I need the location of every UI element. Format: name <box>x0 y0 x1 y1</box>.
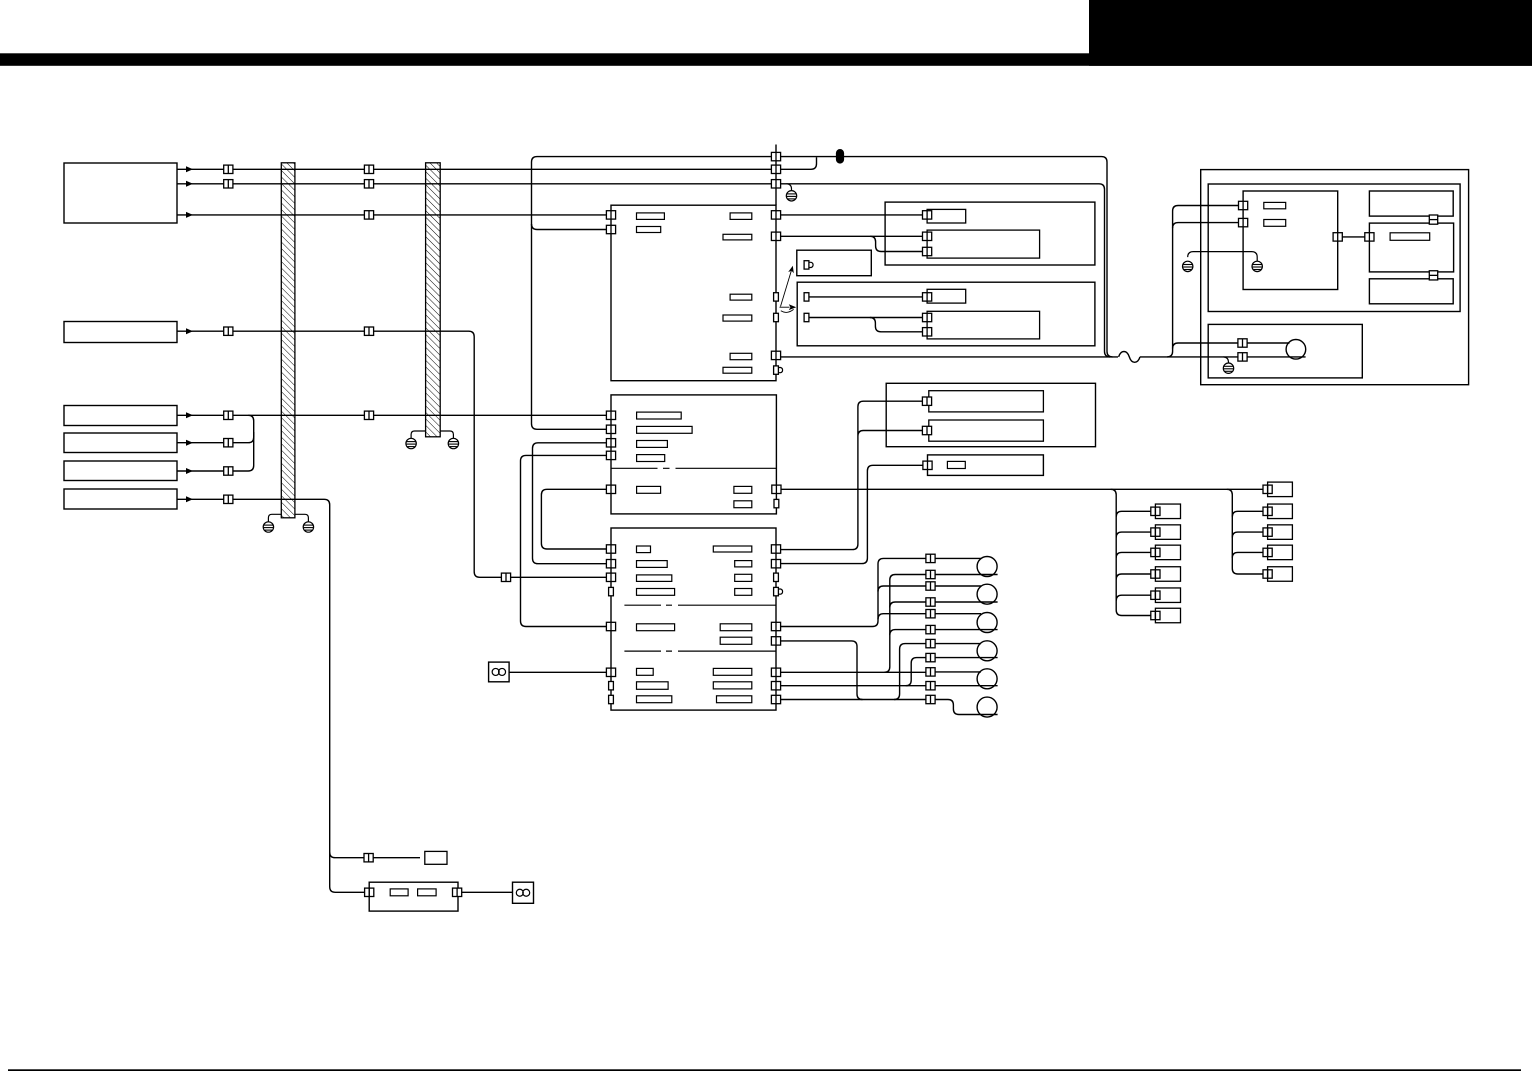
U3 left rect 1 <box>637 546 651 553</box>
wire U1 to K1 element1 <box>781 214 923 216</box>
connector lamp3 top <box>926 610 935 618</box>
U1 left pin rect 1 <box>637 213 665 220</box>
wire right column branch 3 <box>1232 552 1263 558</box>
switch unit box <box>928 455 1044 476</box>
connector lamp4 bottom <box>926 653 935 661</box>
U2 pin rect 5 <box>637 486 661 493</box>
ground stem from line C <box>787 184 792 191</box>
ECU box U1 <box>611 205 776 381</box>
wire lamp5 bottom lead <box>935 685 998 687</box>
wire lamp6 lead <box>935 700 998 715</box>
ground G6 <box>1183 261 1193 271</box>
wire line B (y156.6) with corner down at right <box>537 157 1113 357</box>
lamp L6 <box>977 697 997 717</box>
connector sensor element2 <box>922 426 931 434</box>
ground G4 <box>448 438 458 448</box>
K1 element 1 <box>927 209 966 223</box>
connector lamp2 top <box>926 582 935 590</box>
ground G5 <box>786 191 796 201</box>
arrow on line D <box>186 212 193 218</box>
wire U3 to lamp1 top <box>781 558 926 626</box>
wire lamp2 bottom lead <box>935 601 998 603</box>
connector lamp3 bottom <box>926 625 935 633</box>
wire riser branch y343 <box>1173 343 1238 349</box>
ground G1 <box>263 522 273 532</box>
U3 low rect right 1 <box>713 668 752 675</box>
wire branch lamp3 bottom <box>890 630 926 636</box>
wire long feed y489 <box>781 488 1263 490</box>
wire U2c3 to U3 (x532.5) <box>533 443 607 564</box>
U2 left conn 2 <box>606 425 615 433</box>
U3 left half pin 7 <box>609 682 614 690</box>
right column connector 4 <box>1263 570 1272 578</box>
sensor element 1 <box>929 391 1044 412</box>
wire left column branch 5 <box>1116 595 1151 601</box>
wire U2c4 to U3 (x520.5) <box>521 455 607 626</box>
harness squiggle <box>1119 352 1140 363</box>
connector on line F col1 <box>224 411 233 419</box>
connector lamp4 top <box>926 639 935 647</box>
switch arrow horizontal <box>780 306 790 308</box>
connector stalk pin 3 <box>771 180 780 188</box>
lamp L2 <box>977 584 997 604</box>
connector on line F col2 <box>364 411 373 419</box>
wire left column branch 1 <box>1116 511 1151 517</box>
wire branch lamp3 top <box>878 614 926 620</box>
resistor box <box>425 851 447 864</box>
ground G3 <box>406 438 416 448</box>
title block (black) <box>1089 0 1532 66</box>
wire left column branch 4 <box>1116 574 1151 580</box>
wire riser x1172.6 to combo meter <box>1167 206 1239 357</box>
meter ground link wire <box>1188 252 1258 262</box>
right column connector 3 <box>1263 548 1272 556</box>
U3 right rect 1 <box>713 546 752 552</box>
U2 left conn 3 <box>606 439 615 447</box>
U3 divider dashed 2 <box>624 650 776 652</box>
left column connector 2 <box>1151 528 1160 536</box>
right top terminal connector <box>1263 485 1272 493</box>
wire riser to lamp4 top <box>894 644 926 700</box>
arrow on line G <box>186 440 193 446</box>
connector out of diode box <box>453 888 462 896</box>
wire between sub-boxes <box>1342 236 1365 238</box>
right column terminal box 2 <box>1268 525 1293 540</box>
header bar <box>0 53 1532 66</box>
U3 low rect left 2 <box>637 682 669 690</box>
connector K2 element2 lower <box>923 328 932 336</box>
wire main feed after squiggle <box>1140 356 1238 358</box>
right top terminal box <box>1268 482 1293 497</box>
connector on line C col1 <box>224 180 233 188</box>
K2 pin 1 <box>804 293 809 301</box>
U2 pin rect 3 <box>637 441 668 448</box>
junction fuse2/3 to line F <box>248 415 254 437</box>
U3 right half pin 3 <box>774 573 779 581</box>
sensor box <box>886 383 1095 446</box>
meter sub-box right middle left-edge conn <box>1365 233 1374 241</box>
meter sub-box left rect 2 <box>1264 220 1286 227</box>
arrow on line C <box>186 181 193 187</box>
wire meter lower conn2 under bulb <box>1247 356 1306 358</box>
U3 right conn 6 <box>771 637 780 645</box>
wire left column drop <box>1111 489 1151 615</box>
left column terminal box 5 <box>1155 588 1180 603</box>
connector K2 element1 <box>923 293 932 301</box>
connector on line H col1 <box>224 467 233 475</box>
page reference symbol 2 <box>513 882 534 903</box>
U3 left rect 4 <box>637 589 675 596</box>
K2 pin 2 <box>804 313 809 321</box>
U1 right key pin h <box>774 366 783 374</box>
sensor element 2 <box>929 420 1044 441</box>
connector on line J col1 <box>224 495 233 503</box>
wire lamp3 bottom lead <box>935 629 998 631</box>
connector on line E col1 <box>224 327 233 335</box>
key connector <box>804 261 813 269</box>
footer rule <box>8 1069 1521 1071</box>
U3 right conn 9 <box>771 695 780 703</box>
wire U3 to lamp5 top <box>781 671 926 673</box>
U3 low rect right 3 <box>717 696 752 703</box>
meter sub-box left right-edge conn <box>1333 233 1342 241</box>
U1 left connector pin b <box>606 225 615 233</box>
U2 pin rect 1 <box>637 412 682 419</box>
left column connector 5 <box>1151 591 1160 599</box>
switch arrow flourish <box>781 309 794 312</box>
U1 right pin rect 2 <box>723 234 752 240</box>
connector sensor element1 <box>922 397 931 405</box>
arrow on line J <box>186 496 193 502</box>
U2 divider dashed <box>611 467 776 469</box>
connector on line A col2 <box>364 165 373 173</box>
wire line A merge up into line B <box>811 157 817 169</box>
connector on line G col1 <box>224 439 233 447</box>
left column connector 6 <box>1151 611 1160 619</box>
meter sub-box left conn 2 <box>1239 218 1248 226</box>
left column terminal box 2 <box>1155 525 1180 540</box>
ground G8 <box>1223 363 1233 373</box>
wire lamp4 bottom lead <box>935 657 998 659</box>
wire lamp1 bottom lead <box>935 574 998 576</box>
relay box K1 <box>885 202 1095 265</box>
U3 mid rect right 2 <box>720 637 752 644</box>
U3 low rect right 2 <box>713 682 752 689</box>
U3 right conn 1 <box>771 545 780 553</box>
wire riser branch y222.6 <box>1173 223 1239 229</box>
diode box rect 2 <box>418 889 437 896</box>
U1 right pin rect 5 <box>730 353 752 359</box>
ground G2 <box>303 522 313 532</box>
connector switch unit <box>923 461 932 469</box>
wire riser to lamp1 bottom <box>884 575 926 673</box>
meter sub-box right lower <box>1369 279 1453 304</box>
connector lamp5 bottom <box>926 682 935 690</box>
wire U3 to lamp6 <box>781 699 926 701</box>
left column connector 3 <box>1151 548 1160 556</box>
wire branch x531.5 to ECU pin <box>532 224 607 230</box>
box fuse 2 <box>64 433 177 453</box>
box fuse 4 <box>64 489 177 509</box>
wire branch to K1 element2 lower <box>870 236 922 251</box>
wire U3 conn6 drop to lamp6 line <box>781 641 863 700</box>
ground stem left of bar 2 <box>411 431 426 438</box>
meter lower conn 1 <box>1238 339 1247 347</box>
wire fuse4 line J (y499) <box>177 499 365 892</box>
wire lamp4 top lead <box>935 643 981 645</box>
bulkhead grommet bar 2 <box>426 163 441 437</box>
U2 right conn 1 <box>772 485 781 493</box>
U3 right rect 3 <box>735 574 752 581</box>
connector on ignition wire <box>501 573 510 581</box>
connector lamp5 top <box>926 668 935 676</box>
left column terminal box 6 <box>1155 608 1180 623</box>
U3 right conn 7 <box>771 668 780 676</box>
left column connector 4 <box>1151 570 1160 578</box>
wire right column drop <box>1227 489 1264 574</box>
connector stalk pin 2 <box>771 165 780 173</box>
wire branch to K2 element2 lower <box>870 318 923 332</box>
meter lower conn 2 <box>1238 353 1247 361</box>
U2 left conn 1 <box>606 411 615 419</box>
box fuse 1 <box>64 406 177 426</box>
wire U2c5 to U3 (x541.4) <box>541 489 606 549</box>
connector lamp6 <box>926 695 935 703</box>
wire K2 pin1 to element1 <box>809 296 923 298</box>
wire fuse2 line G (y443) <box>177 432 254 443</box>
left column terminal box 4 <box>1155 567 1180 582</box>
lamp L5 <box>977 669 997 689</box>
wire lamp3 top lead <box>935 613 981 615</box>
wire fuse3 line H (y471) <box>177 432 254 471</box>
U2 right half pin <box>774 499 779 507</box>
U1 right pin rect 6 <box>723 367 752 373</box>
noise suppressor capsule on line B <box>836 149 844 164</box>
meter sub-box right middle rect <box>1390 233 1430 241</box>
U1 right connector pin c <box>771 211 780 219</box>
wire right column branch 2 <box>1232 532 1263 538</box>
box ignition switch feed <box>64 322 177 343</box>
U3 left conn 3 <box>606 573 615 581</box>
U3 left conn 1 <box>606 545 615 553</box>
U3 right conn 2 <box>771 560 780 568</box>
wire U3 to lamp5 bottom <box>781 685 926 687</box>
bulkhead grommet bar 1 <box>281 163 295 518</box>
ECU box U2 <box>611 395 776 514</box>
U3 left rect 2 <box>637 561 668 568</box>
left column connector 1 <box>1151 507 1160 515</box>
arrow on line A <box>186 166 193 172</box>
wire diode box to page ref <box>462 891 513 893</box>
connector K2 element2 upper <box>923 313 932 321</box>
right column terminal box 3 <box>1268 545 1293 560</box>
left column terminal box 3 <box>1155 545 1180 560</box>
wire left column branch 2 <box>1116 532 1151 538</box>
connector K1 element1 <box>923 211 932 219</box>
connector lamp1 bottom <box>926 570 935 578</box>
wire connector stalk x776 <box>775 145 777 206</box>
wire lamp1 top lead <box>935 557 981 559</box>
K2 element 1 <box>927 289 966 303</box>
U3 left conn 2 <box>606 560 615 568</box>
ground G7 <box>1252 261 1262 271</box>
U1 left pin rect 2 <box>637 227 661 233</box>
ground stem left of bar 1 <box>268 514 281 522</box>
wire vertical feed x531.5 <box>532 157 607 430</box>
K1 element 2 <box>927 230 1040 258</box>
K2 element 2 <box>927 311 1040 339</box>
switch arrow diagonal <box>781 270 792 307</box>
U1 right pin rect 4 <box>723 315 752 321</box>
wire branch of line J to resistor <box>330 852 420 858</box>
U3 right key pin 4 <box>774 587 783 595</box>
wire main feed (y357) <box>781 356 1118 358</box>
page reference symbol 1 <box>489 662 510 682</box>
wire right column branch 1 <box>1232 511 1263 517</box>
connector on line C col2 <box>364 180 373 188</box>
arrow on line F <box>186 412 193 418</box>
U3 divider dashed 1 <box>624 604 776 606</box>
lamp L1 <box>977 557 997 577</box>
meter sub-box left conn 1 <box>1239 201 1248 209</box>
right column connector 1 <box>1263 507 1272 515</box>
ground stem right of bar 1 <box>295 514 309 522</box>
connector K1 element2 upper <box>923 232 932 240</box>
U1 right half pin f <box>774 313 779 321</box>
U3 right conn 8 <box>771 682 780 690</box>
U1 left connector pin a <box>606 211 615 219</box>
wire battery line D (y215) <box>177 214 606 216</box>
wire meter lower conn1 to bulb <box>1247 342 1289 344</box>
switch unit inner rect <box>947 461 965 468</box>
wire lamp2 top lead <box>935 585 981 587</box>
wire sensor1 to U3 <box>781 401 923 549</box>
connector lamp1 top <box>926 554 935 562</box>
U3 right conn 5 <box>771 622 780 630</box>
connector on line D col2 <box>364 211 373 219</box>
switch arrow head right <box>789 304 796 310</box>
diode box rect 1 <box>390 889 408 896</box>
U3 low rect left 3 <box>637 696 672 703</box>
ground stem meter <box>1224 357 1229 363</box>
U2 right rect 2 <box>734 501 752 508</box>
wire battery line A (y169) <box>177 168 811 170</box>
meter link connector upper <box>1429 215 1437 224</box>
connector stalk pin 1 <box>771 152 780 160</box>
U1 right connector pin g <box>771 351 780 359</box>
U3 left conn 6 <box>606 668 615 676</box>
ECU box U3 <box>611 528 776 710</box>
U2 pin rect 2 <box>637 426 693 433</box>
U3 low rect left 1 <box>637 668 654 675</box>
relay box K2 <box>797 282 1095 346</box>
wire branch lamp2 top <box>878 586 926 592</box>
wire fuse1 line F (y415) <box>177 414 606 416</box>
key cylinder box <box>797 250 872 276</box>
U2 pin rect 4 <box>637 455 665 462</box>
meter link connector lower <box>1429 271 1437 280</box>
U1 right pin rect 3 <box>730 294 752 300</box>
connector on resistor branch <box>364 854 373 862</box>
wire switch unit to U3 <box>781 465 923 563</box>
wire lamp5 top lead <box>935 671 981 673</box>
U1 right half pin e <box>774 293 779 301</box>
connector on line E col2 <box>364 327 373 335</box>
U2 left conn 5 <box>606 485 615 493</box>
lamp L4 <box>977 641 997 661</box>
diode box <box>369 882 458 911</box>
wire page ref 1 to U3 <box>509 671 606 673</box>
right column terminal box 1 <box>1268 504 1293 519</box>
connector lamp2 bottom <box>926 598 935 606</box>
U1 right pin rect 1 <box>730 213 752 220</box>
connector K1 element2 lower <box>923 247 932 255</box>
U3 right rect 4 <box>735 589 752 596</box>
U3 left half pin 4 <box>609 587 614 595</box>
right column connector 2 <box>1263 528 1272 536</box>
wire ignition line E (y331) <box>177 331 606 577</box>
connector into diode box <box>365 888 374 896</box>
meter bulb <box>1286 340 1306 360</box>
ground stem right of bar 2 <box>440 431 453 438</box>
wire K2 pin2 to element2 upper <box>809 317 923 319</box>
wire battery line C (y184) <box>177 184 1110 357</box>
meter sub-box left rect 1 <box>1264 202 1286 208</box>
U3 mid rect right 1 <box>720 624 752 631</box>
U3 mid rect left <box>637 624 675 631</box>
meter outer box <box>1201 170 1469 385</box>
meter sub-box right middle <box>1369 223 1453 272</box>
box fuse 3 <box>64 461 177 481</box>
switch arrow head up <box>788 266 794 273</box>
wire left column branch 3 <box>1116 552 1151 558</box>
meter sub-box right upper <box>1369 191 1453 216</box>
left column terminal box 1 <box>1155 504 1180 519</box>
box battery <box>64 163 177 223</box>
U3 left conn 5 <box>606 622 615 630</box>
U2 right rect 1 <box>734 486 752 493</box>
U3 left half pin 8 <box>609 695 614 703</box>
wire riser to lamp4 bottom <box>906 658 926 686</box>
meter sub-box left <box>1243 191 1338 290</box>
wire U1 to K1 element2 upper <box>781 235 923 237</box>
arrow on line H <box>186 468 193 474</box>
meter inner box lower <box>1208 324 1362 378</box>
connector on line A col1 <box>224 165 233 173</box>
U2 left conn 4 <box>606 451 615 459</box>
meter inner box upper <box>1208 184 1460 312</box>
lamp L3 <box>977 613 997 633</box>
arrow on line E <box>186 328 193 334</box>
right column terminal box 4 <box>1268 567 1293 582</box>
U3 left rect 3 <box>637 575 672 582</box>
wire branch lamp2 bottom <box>890 602 926 608</box>
U3 right rect 2 <box>735 561 752 567</box>
U1 right connector pin d <box>771 232 780 240</box>
